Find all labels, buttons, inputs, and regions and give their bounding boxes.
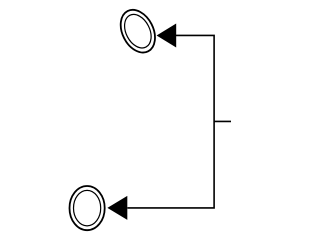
wire: vertical trunk with corners (127, 35, 214, 207)
node A (top accept state, double ellipse) (114, 4, 162, 58)
arrowhead into bottom node (107, 196, 127, 220)
wire: stub tick on trunk (214, 120, 231, 122)
arrowhead into top node (157, 23, 177, 47)
node B (bottom accept state, double ellipse) (70, 186, 105, 230)
